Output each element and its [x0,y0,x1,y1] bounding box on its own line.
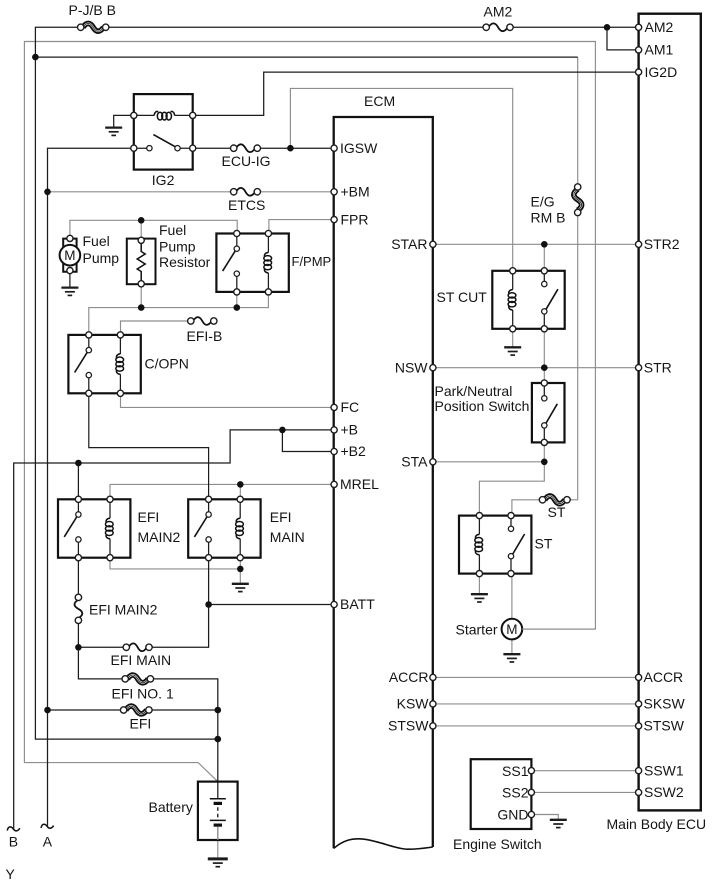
wire node y=57.1 from x=35.4 to E/G RM B rail [35,56,577,58]
fuse EFI (fusible link) [126,706,147,714]
park/neutral position switch box [532,383,565,442]
wire ECM FC to C/OPN coil bottom [121,394,335,408]
junction dot: junction STAR/STR2 / ST CUT [541,241,548,248]
Main Body ECU terminals (left edge) [636,24,642,30]
wire IG2 switch left to node A rail x=47.5 down to tilde A [48,148,134,826]
junction dot: junction EFI MAIN fuse line [75,644,82,651]
svg-text:SS1: SS1 [502,763,529,779]
svg-text:+B: +B [341,422,359,438]
svg-text:GND: GND [497,807,528,823]
wire AM2 node to AM1 terminal [607,27,639,50]
svg-text:ACCR: ACCR [389,669,429,685]
svg-text:AM2: AM2 [645,19,674,35]
relay EFI MAIN switch blade [194,516,207,537]
wire STA line y=461.8 [433,461,544,463]
wire IG2 switch right through ECU-IG fuse to ECM IGSW [193,147,334,149]
svg-text:C/OPN: C/OPN [145,356,189,372]
svg-text:FC: FC [341,399,360,415]
ground (fuel pump) [61,288,78,296]
wire battery negative to ground [217,827,219,859]
svg-text:SS2: SS2 [502,785,529,801]
wire park/neutral switch bottom to STA node [543,442,545,461]
junction dot: junction battery feed y=739.1 [215,736,222,743]
svg-text:ACCR: ACCR [644,669,684,685]
svg-text:AM2: AM2 [484,4,513,20]
relay IG2 switch row [134,147,193,149]
wire EFI MAIN2 switch bottom down through EFI MAIN2 fuse, EFI NO.1 run to battery rail [78,558,217,782]
relay C/OPN coil [119,335,121,354]
svg-text:Park/Neutral: Park/Neutral [435,383,513,399]
svg-text:P-J/B B: P-J/B B [69,2,116,18]
wire EFI fuse line y=710 node A to battery rail [48,709,218,711]
wire ECM +B2 branch [282,430,334,452]
svg-text:Resistor: Resistor [159,254,211,270]
fuse EFI MAIN2 (vertical) [75,600,83,619]
relay EFI MAIN terminals [206,496,212,502]
park/neutral position switch blade [545,404,557,425]
svg-text:EFI: EFI [138,509,160,525]
svg-text:NSW: NSW [395,359,428,375]
relay EFI MAIN box [188,499,260,557]
wire starter motor to gray rail x=595.4 [522,628,595,630]
fuse P-J/B B (fusible link) [83,23,104,31]
relay C/OPN box [68,335,140,393]
relay IG2 switch blade [153,135,177,148]
svg-text:STSW: STSW [388,718,429,734]
relay F/PMP switch inner contacts [234,246,239,251]
wire ECM MREL to EFI MAIN2 coil top (y=484.4) [110,484,334,499]
battery box [198,782,238,840]
fuse ST (fusible link) [545,496,565,504]
fuse AM2 [488,23,507,31]
wire EFI MAIN relay switch bottom to BATT node [208,558,210,605]
fuse EFI NO. 1 (fusible link) [127,675,148,683]
relay IG2 inner contacts [147,146,152,151]
relay ST CUT switch blade [546,289,558,310]
wire EFI MAIN coil bottom to ground [239,558,241,584]
relay IG2 box [134,94,193,170]
svg-text:STSW: STSW [644,718,685,734]
relay F/PMP coil [267,234,269,253]
svg-text:SSW2: SSW2 [644,784,684,800]
svg-text:ECM: ECM [364,93,395,109]
svg-text:FPR: FPR [341,211,369,227]
relay C/OPN switch contact wires [88,335,90,393]
fuel pump resistor box [127,239,156,285]
wire NSW to STR line y=367.7 [433,367,639,369]
svg-text:EFI MAIN: EFI MAIN [111,652,172,668]
relay EFI MAIN switch contact wires [208,499,210,557]
junction dot: junction resistor top [138,217,145,224]
wire STAR to STR2 line y=244.3 [433,243,639,245]
svg-text:Position Switch: Position Switch [435,398,530,414]
svg-text:MAIN: MAIN [270,529,305,545]
junction dot: junction STA [541,459,548,466]
relay EFI MAIN coil [239,499,241,518]
relay F/PMP terminals [234,230,240,236]
svg-text:Starter: Starter [456,622,498,638]
relay IG2 terminals [131,112,137,118]
wire IG2 coil left to ground [114,115,134,127]
svg-text:A: A [43,833,53,849]
svg-text:MAIN2: MAIN2 [138,529,181,545]
wire fuel pump top / resistor top / F/PMP switch top (y=220.3) [70,220,237,238]
junction dot: junction resistor bottom bus [138,304,145,311]
svg-text:M: M [64,248,75,263]
svg-text:IG2: IG2 [152,172,175,188]
wire KSW-SKSW line y=703.9 [433,703,639,705]
wire battery positive lead inside box [217,782,219,799]
wire C/OPN coil top to EFI-B fuse [121,321,191,335]
svg-text:EFI MAIN2: EFI MAIN2 [89,602,158,618]
park/neutral position switch inner contacts [542,396,547,401]
relay ST terminals [476,513,482,519]
wire F/PMP bottom bus y=307.6 to C/OPN switch top [89,292,269,335]
junction dot: junction MREL / EFI MAIN coil [237,481,244,488]
wire ECM +B left to node B rail x=13.7 down to tilde B [14,430,334,829]
svg-text:Y: Y [6,866,16,882]
svg-text:BATT: BATT [340,596,375,612]
svg-text:+B2: +B2 [341,443,367,459]
ground (ST CUT relay coil) [504,347,521,355]
svg-text:M: M [506,622,517,637]
junction dot: junction IGSW / ST CUT coil feed [287,145,294,152]
ground (ST relay coil) [471,594,488,602]
svg-text:STA: STA [401,454,428,470]
ground (engine switch GND) [550,820,567,828]
svg-text:STR2: STR2 [644,236,680,252]
svg-text:Main Body ECU: Main Body ECU [607,816,707,832]
wire SS1-SSW1 line y=770.7 [531,770,638,772]
wire MREL branch to EFI MAIN relay coil top [239,484,241,499]
svg-text:ECU-IG: ECU-IG [222,153,271,169]
wire ST relay coil bottom to ground [478,574,480,595]
relay ST switch inner contacts [508,526,513,531]
svg-text:RM B: RM B [531,210,566,226]
svg-text:ST CUT: ST CUT [437,289,488,305]
svg-text:ST: ST [535,536,553,552]
wire ST fuse line y=499.8 to ST relay switch top and up E/G RM B rail x=577.7 [512,57,578,515]
wire EFI MAIN fuse line y=647.3 [78,605,208,648]
svg-text:STR: STR [644,359,672,375]
svg-text:KSW: KSW [397,696,430,712]
ECM terminals (right edge) [430,241,436,247]
fuse ETCS [236,188,255,196]
relay C/OPN terminals [86,332,92,338]
wire BATT line to ECM [209,604,335,606]
relay EFI MAIN2 box [58,499,130,557]
junction dot: junction BATT line [205,601,212,608]
wire fuel pump bottom to ground [69,272,71,288]
ECM box (wavy bottom) [334,117,433,848]
relay F/PMP switch blade [223,250,236,271]
fuse EFI-B [193,317,212,325]
Main Body ECU box [639,14,701,811]
battery cell plates [210,798,226,800]
park/neutral position switch terminals [541,380,547,386]
park/neutral position switch contacts [543,383,545,442]
svg-text:EFI: EFI [270,509,292,525]
junction dot: junction EFI MAIN2 switch / +B line [75,460,82,467]
relay ST switch contact wires [510,516,512,574]
svg-text:Fuel: Fuel [83,233,110,249]
svg-text:SSW1: SSW1 [644,762,684,778]
relay ST CUT terminals [510,268,516,274]
junction dot: junction relay coil grounds [237,566,244,573]
wire ETCS fuse line y=191.8 from node A rail to ECM +BM [48,191,335,193]
svg-text:B: B [9,833,18,849]
svg-text:AM1: AM1 [645,42,674,58]
relay EFI MAIN2 switch contact wires [77,499,79,557]
svg-text:Pump: Pump [83,250,120,266]
wire ST relay switch bottom to starter motor [511,574,513,619]
svg-text:+BM: +BM [341,184,370,200]
svg-text:F/PMP: F/PMP [292,254,332,269]
svg-text:STAR: STAR [391,236,427,252]
wire ECM FPR to F/PMP relay coil top [269,220,334,234]
junction dot: junction EFI fuse line on rail A [44,707,51,714]
relay EFI MAIN2 switch inner contacts [76,512,81,517]
wire ST CUT switch top stub from STAR node [543,244,545,270]
Engine Switch box [471,759,532,829]
junction dot: junction node y57 on rail x35.4 [32,54,39,61]
fuse EFI MAIN [129,643,147,651]
wire ACCR line y=677.4 [433,676,639,678]
junction dot: junction NSW/STR [541,364,548,371]
junction dot: junction ETCS on rail A [44,189,51,196]
starter motor M2 [502,619,523,640]
wire EFI MAIN2 coil bottom to shared ground junction y=568.9 [110,558,240,569]
wire STA node down-left to ST relay coil top [479,462,544,516]
relay ST CUT box [492,271,564,329]
relay C/OPN switch blade [75,351,88,372]
relay C/OPN switch inner contacts [86,347,91,352]
svg-text:Engine Switch: Engine Switch [453,836,542,852]
svg-text:ETCS: ETCS [228,197,265,213]
wire IGSW node to ST CUT relay coil (up x=290.4, across y=88.4, down x=512.7) [290,88,512,270]
relay ST CUT switch inner contacts [542,281,547,286]
wire P-J/B B / AM2 feed line y=27.3 and left rail x=35.4 down to battery junction y=739.1 [35,27,638,739]
connector break tilde B [7,827,20,831]
fuel pump motor brushes [63,239,76,247]
svg-text:EFI-B: EFI-B [187,328,223,344]
svg-text:IGSW: IGSW [340,140,378,156]
relay EFI MAIN2 coil [109,499,111,518]
svg-text:EFI NO. 1: EFI NO. 1 [112,685,174,701]
fuel pump motor terminals [67,235,73,241]
wire NSW node to park/neutral switch top [543,368,545,383]
relay EFI MAIN2 switch blade [64,516,77,537]
relay EFI MAIN switch inner contacts [206,512,211,517]
svg-text:E/G: E/G [531,194,555,210]
junction dot: junction F/PMP switch bottom bus [234,304,241,311]
svg-text:MREL: MREL [340,476,379,492]
junction dot: junction AM2/AM1 [604,24,611,31]
junction dot: junction EFI fuse line on battery rail [215,707,222,714]
junction dot: junction +B/+B2 [279,427,286,434]
fuel pump resistor zigzag element [137,240,145,283]
svg-text:Fuel: Fuel [159,222,186,238]
relay IG2 coil row [134,114,193,116]
fuse E/G RM B (vertical fusible link) [574,189,582,210]
fuel pump motor M1 [60,245,81,266]
wire IG2D from Main Body ECU to IG2 relay coil [193,72,639,115]
ground (battery) [208,859,228,867]
wire starter motor to ground [511,639,513,654]
wire engine switch GND to ground [531,815,558,820]
Engine Switch terminals SS1 SS2 GND [528,768,534,774]
svg-text:IG2D: IG2D [645,64,678,80]
svg-text:Battery: Battery [149,799,193,815]
wire ST CUT coil bottom to ground [512,329,514,348]
svg-text:EFI: EFI [130,716,152,732]
relay F/PMP switch contact wires [236,234,238,292]
fuse ECU-IG [236,144,255,152]
wire EFI MAIN2 relay switch top to +B node [77,463,79,499]
svg-text:Pump: Pump [159,239,196,255]
relay ST CUT coil [512,271,514,290]
relay ST box [459,516,531,574]
wire SS2-SSW2 line y=792.4 [531,791,638,793]
relay F/PMP box [216,234,288,292]
wire STSW line y=725.9 [433,725,639,727]
svg-text:SKSW: SKSW [644,696,686,712]
wire resistor top stub [140,220,142,240]
wire resistor bottom stub to bus [140,284,142,308]
ECM terminals (left edge) [331,145,337,151]
relay EFI MAIN2 terminals [75,496,81,502]
wire C/OPN switch bottom to EFI MAIN relay switch top [89,394,209,500]
relay ST CUT switch contact wires [543,271,545,329]
connector break tilde A [41,824,54,828]
relay ST coil [478,516,480,535]
ground (IG2 coil) [105,128,122,136]
wire ST CUT switch bottom to NSW node [543,329,545,368]
wire F/PMP switch bottom stub to bus [236,292,238,308]
wire gray net: AM1/starter feed from node B2 (left rail x=24.4, top run y=41.5, right rail x=595.4 to starter, battery diagonal) [24,42,595,782]
fuel pump resistor terminals [138,237,144,243]
relay ST switch blade [512,534,524,555]
svg-text:ST: ST [548,504,566,520]
ground (starter motor) [503,654,520,662]
ground (EFI MAIN relay coil) [232,584,249,592]
